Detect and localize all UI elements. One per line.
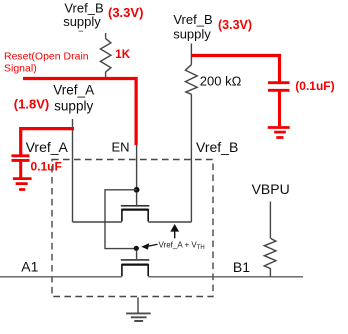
ground (red, left) <box>13 179 32 190</box>
svg-text:(1.8V): (1.8V) <box>14 96 49 111</box>
svg-text:B1: B1 <box>233 259 250 275</box>
svg-text:Vref_A: Vref_A <box>53 83 94 98</box>
transistor M2 (lower MOSFET) <box>136 251 138 259</box>
svg-text:A1: A1 <box>21 259 38 275</box>
wire B1 line <box>148 276 303 278</box>
wire M1 drain lead (to Vref_B) <box>148 221 191 223</box>
wire C2 to ground <box>278 92 281 127</box>
svg-text:(3.3V): (3.3V) <box>108 5 143 20</box>
svg-text:EN: EN <box>112 140 130 155</box>
svg-text:supply: supply <box>173 26 211 41</box>
resistor R3 pull-up zigzag <box>264 238 276 277</box>
ground (red, right) <box>268 128 290 138</box>
svg-text:1K: 1K <box>115 49 130 61</box>
svg-text:(0.1uF): (0.1uF) <box>295 79 334 93</box>
wire stub under supply label <box>79 30 83 32</box>
resistor R1 1K zigzag <box>100 39 111 72</box>
svg-text:supply: supply <box>63 14 101 29</box>
svg-text:Signal): Signal) <box>4 63 37 75</box>
svg-text:supply: supply <box>54 98 93 113</box>
wire Vref_B supply to resistor R2 <box>190 44 192 65</box>
wire A1 line <box>0 276 122 278</box>
resistor R2 200 kOhm zigzag <box>185 65 197 95</box>
dashed enclosure box <box>52 160 213 297</box>
wire reset net (red, thick) to EN <box>23 77 138 145</box>
svg-text:0.1uF: 0.1uF <box>31 160 62 174</box>
wire VBPU to resistor R3 <box>269 202 271 239</box>
wire R2 bottom to M1 drain <box>190 94 192 222</box>
junction node Vref_A+VTH <box>134 246 139 251</box>
svg-text:200 kΩ: 200 kΩ <box>200 74 242 89</box>
capacitor C1 0.1uF (red) plates <box>12 156 30 161</box>
svg-text:Vref_B: Vref_B <box>196 139 238 155</box>
capacitor C2 0.1uF (red) plates <box>268 83 290 91</box>
wire M1 source lead (to Vref_A) <box>73 221 122 223</box>
svg-text:Reset(Open Drain: Reset(Open Drain <box>4 51 89 63</box>
wire red 3.3V branch to capacitor C2 <box>191 54 281 82</box>
annotation arrow (up, at M1 source lead) <box>174 230 176 238</box>
wire red branch to capacitor C1 <box>19 127 74 156</box>
ground (black, bottom) <box>126 313 151 321</box>
wire Vref_A supply vertical <box>72 119 74 222</box>
wire loop from EN node to lower gate node <box>105 190 137 249</box>
wire box to ground (bottom) <box>137 297 139 313</box>
wire R1 bottom to reset line <box>105 72 107 78</box>
wire from Vref_B supply to resistor R1 <box>105 33 107 39</box>
svg-text:(3.3V): (3.3V) <box>218 18 252 32</box>
wire C1 to ground <box>19 161 22 178</box>
svg-text:VBPU: VBPU <box>252 181 290 197</box>
annotation arrow (left, at VTH node) <box>148 244 158 246</box>
wire EN down into box <box>136 145 138 188</box>
svg-text:Vref_B: Vref_B <box>173 12 212 27</box>
transistor M1 (upper MOSFET) <box>136 192 138 205</box>
junction node EN/gate <box>134 187 140 193</box>
svg-text:Vref_A: Vref_A <box>26 139 69 155</box>
